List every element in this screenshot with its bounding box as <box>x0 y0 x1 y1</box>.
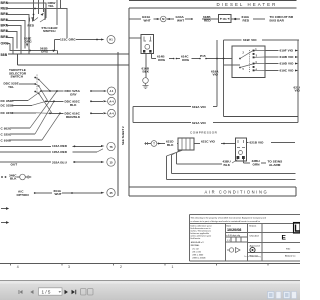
svg-text:15A: 15A <box>223 18 228 21</box>
svg-text:ALARM: ALARM <box>269 163 281 167</box>
svg-text:E: E <box>282 235 287 242</box>
svg-text:YEL: YEL <box>8 85 14 89</box>
svg-text:10/20/08: 10/20/08 <box>227 228 241 232</box>
svg-text:ORG: ORG <box>158 58 166 62</box>
svg-text:621A VIO: 621A VIO <box>192 121 206 125</box>
svg-text:621B VIO: 621B VIO <box>250 141 265 145</box>
svg-text:2: 2 <box>120 265 122 269</box>
svg-text:RED: RED <box>28 24 35 28</box>
svg-text:WHT: WHT <box>144 18 151 22</box>
svg-text:BLK: BLK <box>224 163 231 167</box>
svg-text:ORG: ORG <box>25 40 33 44</box>
svg-text:P15: P15 <box>200 54 206 58</box>
svg-text:ORG: ORG <box>41 50 49 54</box>
svg-text:GRY: GRY <box>70 93 78 97</box>
svg-text:ANGULAR ± 1°: ANGULAR ± 1° <box>191 241 205 244</box>
svg-text:RED: RED <box>204 18 211 22</box>
svg-text:Do not scale drawing: Do not scale drawing <box>244 255 261 258</box>
svg-text:619D VIO: 619D VIO <box>280 62 295 66</box>
svg-text:58B: 58B <box>1 53 8 57</box>
svg-text:3: 3 <box>68 265 70 269</box>
svg-text:.XX ± .010: .XX ± .010 <box>192 251 201 253</box>
svg-text:BLK: BLK <box>143 69 150 73</box>
svg-text:SWITCH: SWITCH <box>43 29 56 33</box>
svg-text:619F VIO: 619F VIO <box>280 49 294 53</box>
svg-text:SEE SHEET 2: SEE SHEET 2 <box>121 126 125 145</box>
svg-text:619B VIO: 619B VIO <box>280 55 295 59</box>
svg-text:WHT: WHT <box>177 18 184 22</box>
svg-text:4: 4 <box>17 265 19 269</box>
svg-text:1 / 5: 1 / 5 <box>42 290 51 295</box>
svg-text:RED: RED <box>243 18 250 22</box>
svg-text:ORG: ORG <box>182 58 190 62</box>
svg-text:ORN: ORN <box>253 162 261 166</box>
svg-text:104A RED: 104A RED <box>52 144 68 148</box>
svg-text:619A VIO: 619A VIO <box>192 105 206 109</box>
svg-text:A-4: A-4 <box>109 111 114 115</box>
svg-text:A-4: A-4 <box>109 99 114 103</box>
svg-text:RED/BLK: RED/BLK <box>66 115 81 119</box>
svg-text:DECIMAL: DECIMAL <box>191 244 200 247</box>
svg-text:fied herein.: fied herein. <box>191 238 202 240</box>
svg-text:621C VIO: 621C VIO <box>201 139 216 143</box>
svg-text:619C VIO: 619C VIO <box>280 69 295 73</box>
svg-text:or shown to in part, of design: or shown to in part, of design and code … <box>191 220 261 223</box>
svg-text:45: 45 <box>109 191 113 195</box>
svg-text:202A BLU: 202A BLU <box>52 160 68 164</box>
svg-text:BLK: BLK <box>167 143 174 147</box>
svg-text:619F VIO: 619F VIO <box>243 38 257 42</box>
svg-text:This drawing is the property o: This drawing is the property of Lim-Belt… <box>191 216 267 219</box>
svg-text:BLK: BLK <box>70 103 77 107</box>
svg-text:121C ORG: 121C ORG <box>60 38 76 42</box>
svg-text:WHT: WHT <box>55 192 62 196</box>
svg-text:H1: H1 <box>109 38 113 42</box>
svg-text:105A RED: 105A RED <box>52 150 68 154</box>
svg-text:AIR CONDITIONING: AIR CONDITIONING <box>205 190 269 195</box>
svg-text:Bobcat Co: Bobcat Co <box>285 254 296 257</box>
svg-text:15: 15 <box>109 160 113 164</box>
svg-text:Checked: Checked <box>250 235 260 237</box>
svg-text:C 916E: C 916E <box>1 139 12 143</box>
svg-text:.X ± .02: .X ± .02 <box>192 248 199 250</box>
svg-text:.XXXX ± .00025: .XXXX ± .00025 <box>192 257 205 259</box>
svg-text:COMPRESSOR: COMPRESSOR <box>190 130 218 134</box>
svg-text:in 5.08 dept mfg: in 5.08 dept mfg <box>226 234 241 237</box>
svg-text:SWITCH: SWITCH <box>11 75 24 79</box>
svg-text:OPTION: OPTION <box>17 193 30 197</box>
svg-text:BLK: BLK <box>10 177 17 181</box>
svg-text:76: 76 <box>109 145 113 149</box>
svg-text:Approved: Approved <box>250 244 261 247</box>
svg-text:OUT: OUT <box>11 162 18 166</box>
svg-text:YEL: YEL <box>48 4 54 8</box>
svg-text:VIO: VIO <box>295 89 301 93</box>
svg-text:VIO: VIO <box>213 73 219 77</box>
svg-text:Drawn: Drawn <box>250 225 257 227</box>
svg-text:.XXX ± .0050: .XXX ± .0050 <box>192 254 203 256</box>
svg-text:BUS BAR: BUS BAR <box>270 19 285 23</box>
svg-text:J-1: J-1 <box>110 89 114 93</box>
svg-text:DIESEL HEATER: DIESEL HEATER <box>217 2 278 7</box>
svg-text:1: 1 <box>172 265 174 269</box>
